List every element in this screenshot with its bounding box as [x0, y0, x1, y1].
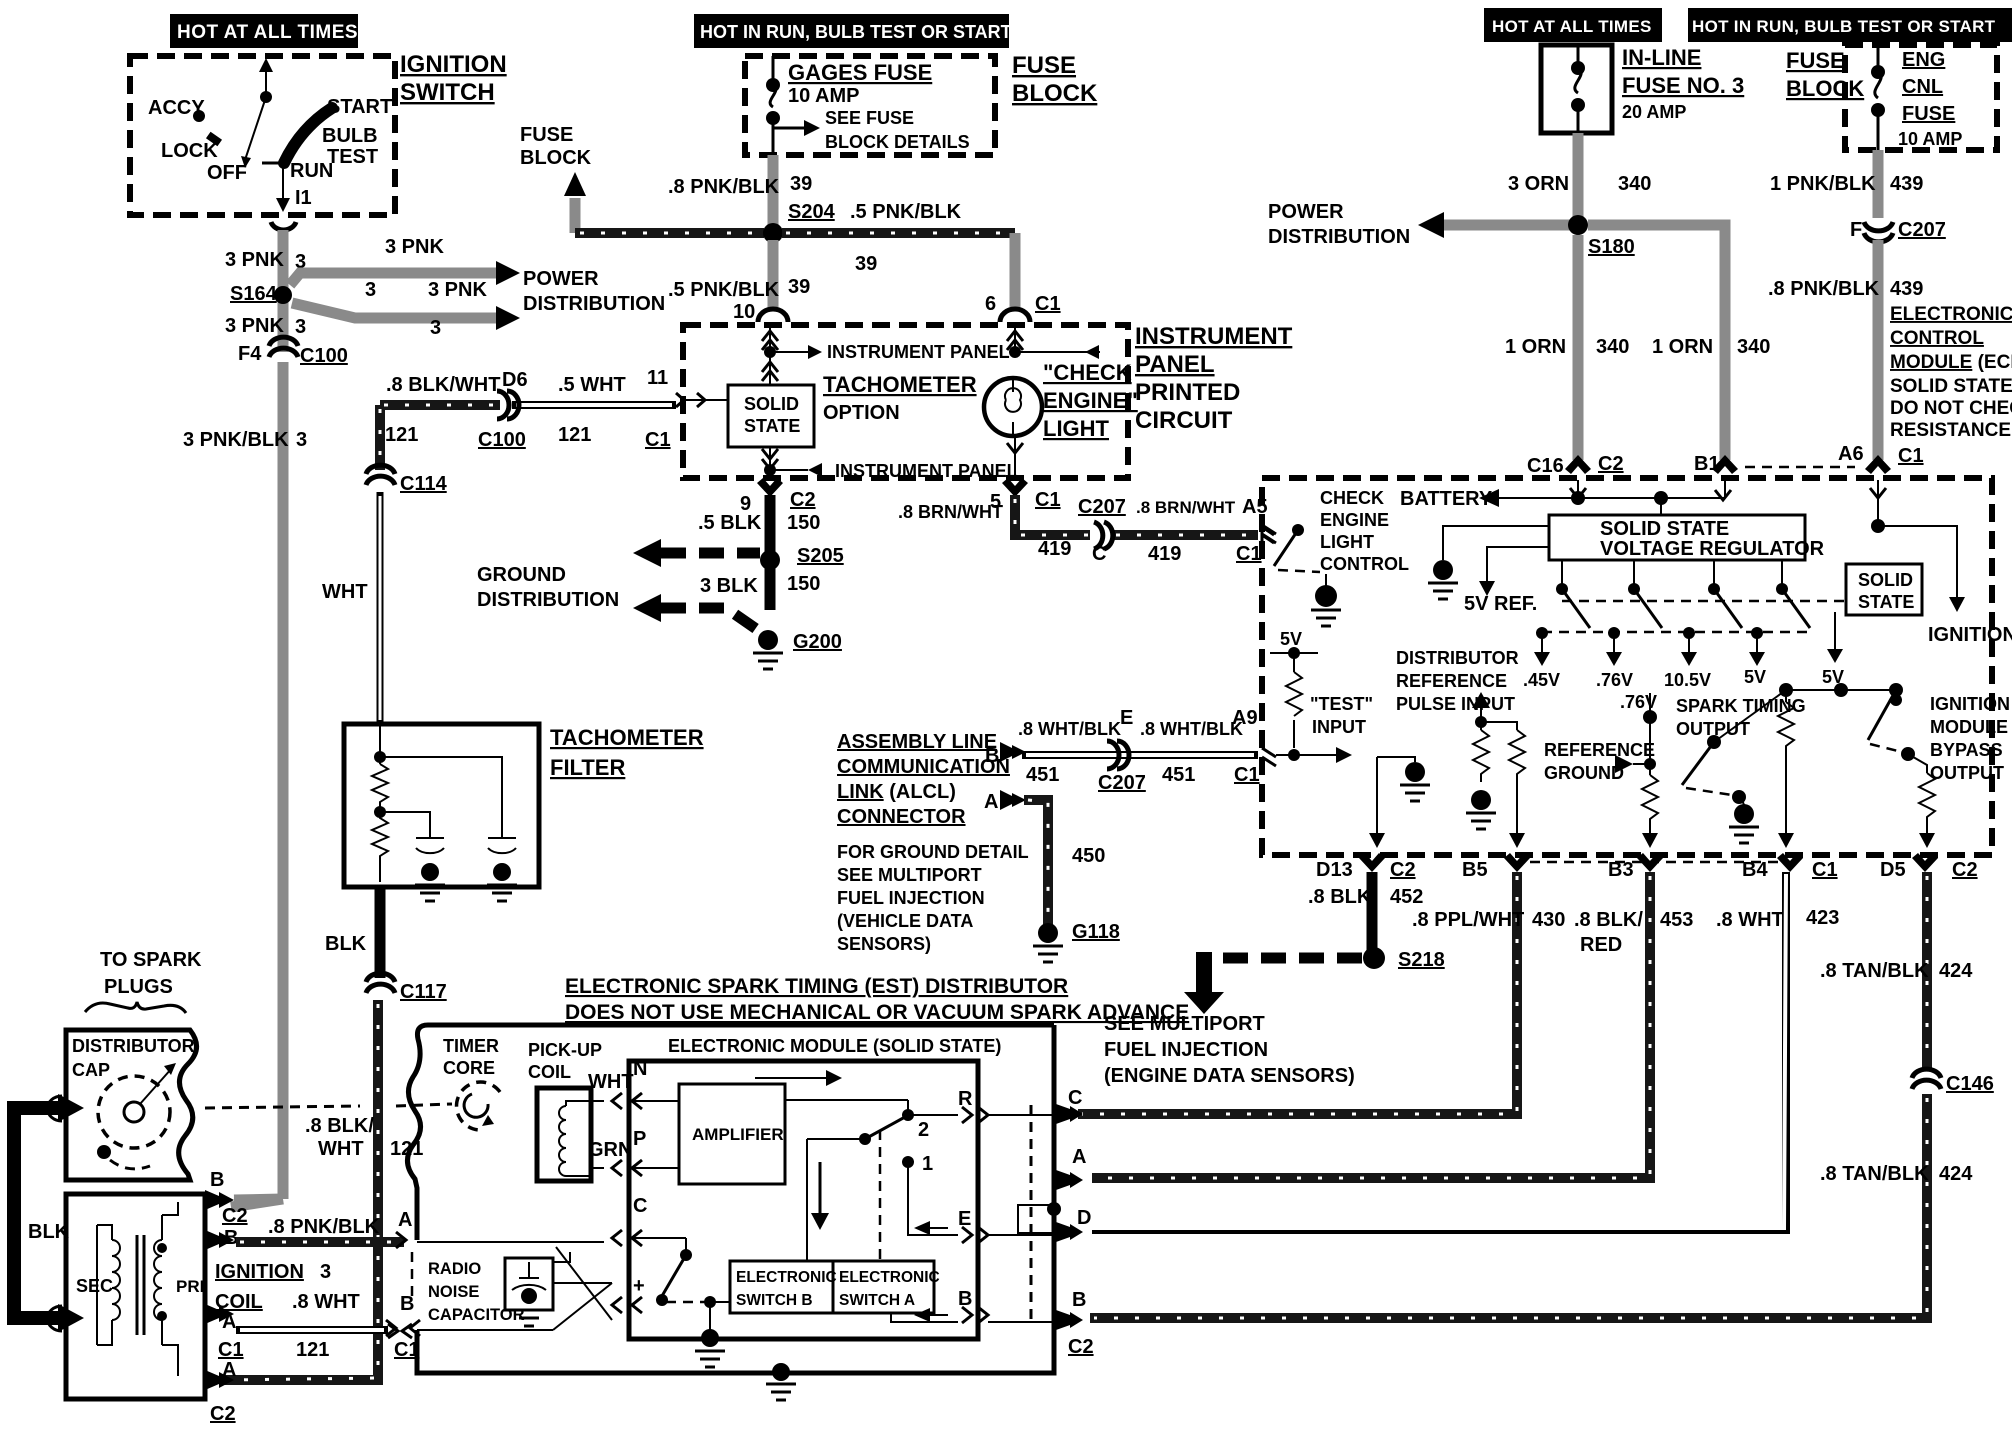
svg-text:BLOCK: BLOCK — [1012, 80, 1098, 107]
svg-text:C100: C100 — [300, 345, 348, 367]
svg-text:.5 PNK/BLK: .5 PNK/BLK — [850, 201, 962, 223]
svg-text:B: B — [400, 1293, 414, 1315]
svg-text:DO NOT CHECK: DO NOT CHECK — [1890, 398, 2012, 419]
svg-text:MODULE: MODULE — [1930, 717, 2008, 737]
svg-text:ASSEMBLY LINE: ASSEMBLY LINE — [837, 731, 997, 753]
svg-text:20 AMP: 20 AMP — [1622, 102, 1686, 122]
svg-text:.8 TAN/BLK: .8 TAN/BLK — [1820, 1163, 1929, 1185]
svg-text:BLOCK DETAILS: BLOCK DETAILS — [825, 132, 970, 152]
svg-text:C: C — [633, 1195, 647, 1217]
svg-text:RESISTANCE: RESISTANCE — [1890, 420, 2011, 441]
svg-text:WHT: WHT — [318, 1138, 364, 1160]
svg-text:419: 419 — [1038, 538, 1071, 560]
svg-text:ELECTRONIC: ELECTRONIC — [839, 1269, 940, 1286]
svg-text:.76V: .76V — [1596, 670, 1633, 690]
svg-text:D6: D6 — [502, 369, 528, 391]
svg-text:.8 PNK/BLK: .8 PNK/BLK — [1768, 278, 1880, 300]
svg-text:C16: C16 — [1527, 455, 1564, 477]
svg-text:"CHECK: "CHECK — [1043, 360, 1132, 385]
svg-text:150: 150 — [787, 573, 820, 595]
svg-text:C1: C1 — [645, 429, 671, 451]
svg-text:.8 TAN/BLK: .8 TAN/BLK — [1820, 960, 1929, 982]
svg-text:BLOCK: BLOCK — [1786, 76, 1864, 101]
svg-text:419: 419 — [1148, 543, 1181, 565]
svg-text:(ENGINE DATA SENSORS): (ENGINE DATA SENSORS) — [1104, 1065, 1355, 1087]
svg-text:IGNITION: IGNITION — [400, 51, 507, 78]
svg-text:SEE MULTIPORT: SEE MULTIPORT — [837, 865, 982, 885]
svg-text:E: E — [958, 1208, 971, 1230]
svg-text:B: B — [210, 1169, 224, 1191]
svg-text:121: 121 — [385, 424, 418, 446]
svg-text:451: 451 — [1162, 764, 1195, 786]
svg-text:REFERENCE: REFERENCE — [1544, 740, 1655, 760]
svg-text:3: 3 — [320, 1261, 331, 1283]
svg-text:LINK (ALCL): LINK (ALCL) — [837, 781, 956, 803]
svg-text:.8 BLK/: .8 BLK/ — [305, 1115, 374, 1137]
svg-text:10 AMP: 10 AMP — [1898, 129, 1962, 149]
svg-text:STATE: STATE — [744, 416, 800, 436]
svg-text:D5: D5 — [1880, 859, 1906, 881]
svg-text:424: 424 — [1939, 960, 1973, 982]
svg-text:SWITCH: SWITCH — [400, 79, 495, 106]
svg-text:CIRCUIT: CIRCUIT — [1135, 407, 1233, 434]
svg-text:PRINTED: PRINTED — [1135, 379, 1240, 406]
svg-text:A6: A6 — [1838, 443, 1864, 465]
svg-text:S205: S205 — [797, 545, 844, 567]
svg-text:.8 PNK/BLK: .8 PNK/BLK — [268, 1216, 380, 1238]
svg-text:NOISE: NOISE — [428, 1283, 479, 1301]
svg-text:PULSE INPUT: PULSE INPUT — [1396, 694, 1515, 714]
svg-text:HOT AT ALL TIMES: HOT AT ALL TIMES — [1492, 17, 1652, 36]
svg-text:AMPLIFIER: AMPLIFIER — [692, 1125, 784, 1144]
svg-text:SEE FUSE: SEE FUSE — [825, 108, 914, 128]
svg-text:C1: C1 — [394, 1339, 420, 1361]
svg-text:A: A — [398, 1209, 412, 1231]
svg-text:C1: C1 — [1812, 859, 1838, 881]
svg-text:TEST: TEST — [327, 146, 378, 168]
svg-text:R: R — [958, 1088, 973, 1110]
svg-text:FUSE: FUSE — [1012, 52, 1076, 79]
svg-text:IGNITION: IGNITION — [215, 1261, 304, 1283]
svg-text:C2: C2 — [1598, 453, 1624, 475]
svg-text:CHECK: CHECK — [1320, 488, 1384, 508]
svg-text:CONNECTOR: CONNECTOR — [837, 806, 966, 828]
svg-text:SOLID: SOLID — [1858, 570, 1913, 590]
svg-text:GROUND: GROUND — [1544, 763, 1624, 783]
svg-text:C2: C2 — [222, 1205, 248, 1227]
svg-text:BYPASS: BYPASS — [1930, 740, 2003, 760]
svg-text:D: D — [1077, 1207, 1091, 1229]
svg-text:CORE: CORE — [443, 1058, 495, 1078]
svg-text:PANEL: PANEL — [1135, 351, 1215, 378]
svg-text:B: B — [985, 745, 999, 767]
svg-text:PRI: PRI — [176, 1277, 204, 1296]
svg-text:S204: S204 — [788, 201, 836, 223]
svg-text:.76V: .76V — [1620, 692, 1657, 712]
svg-text:C2: C2 — [1068, 1336, 1094, 1358]
svg-text:3 PNK: 3 PNK — [225, 249, 284, 271]
svg-text:BLK: BLK — [28, 1221, 70, 1243]
svg-text:FOR GROUND DETAIL: FOR GROUND DETAIL — [837, 842, 1029, 862]
svg-text:1 ORN: 1 ORN — [1652, 336, 1713, 358]
svg-text:39: 39 — [788, 276, 810, 298]
svg-text:LIGHT: LIGHT — [1043, 416, 1110, 441]
svg-text:ELECTRONIC MODULE (SOLID STATE: ELECTRONIC MODULE (SOLID STATE) — [668, 1036, 1001, 1056]
svg-text:424: 424 — [1939, 1163, 1973, 1185]
svg-text:121: 121 — [558, 424, 591, 446]
svg-text:STATE: STATE — [1858, 592, 1914, 612]
svg-text:I1: I1 — [295, 187, 312, 209]
svg-text:C207: C207 — [1898, 219, 1946, 241]
svg-text:C1: C1 — [1898, 445, 1924, 467]
svg-text:C207: C207 — [1078, 496, 1126, 518]
svg-text:FUEL INJECTION: FUEL INJECTION — [837, 888, 985, 908]
svg-text:10 AMP: 10 AMP — [788, 85, 860, 107]
svg-text:39: 39 — [855, 253, 877, 275]
svg-text:.8 BRN/WHT: .8 BRN/WHT — [898, 502, 1003, 522]
svg-text:OFF: OFF — [207, 162, 247, 184]
svg-text:WHT: WHT — [322, 581, 368, 603]
svg-text:.8 BLK/WHT: .8 BLK/WHT — [386, 374, 500, 396]
svg-text:INSTRUMENT: INSTRUMENT — [1135, 323, 1293, 350]
svg-text:GROUND: GROUND — [477, 564, 566, 586]
svg-text:FUSE: FUSE — [1786, 48, 1845, 73]
svg-text:3 BLK: 3 BLK — [700, 575, 758, 597]
svg-text:.8 BLK/: .8 BLK/ — [1574, 909, 1643, 931]
svg-text:PLUGS: PLUGS — [104, 976, 173, 998]
svg-text:340: 340 — [1596, 336, 1629, 358]
svg-text:DISTRIBUTION: DISTRIBUTION — [1268, 226, 1410, 248]
svg-text:POWER: POWER — [523, 268, 599, 290]
svg-text:TIMER: TIMER — [443, 1036, 499, 1056]
svg-text:A: A — [1072, 1146, 1086, 1168]
svg-text:FUEL INJECTION: FUEL INJECTION — [1104, 1039, 1268, 1061]
svg-text:SOLID STATE:: SOLID STATE: — [1890, 376, 2012, 397]
svg-text:SEC: SEC — [76, 1276, 113, 1296]
svg-text:.5 WHT: .5 WHT — [558, 374, 626, 396]
svg-text:.8 WHT/BLK: .8 WHT/BLK — [1018, 719, 1121, 739]
svg-text:INSTRUMENT PANEL: INSTRUMENT PANEL — [827, 342, 1010, 362]
svg-text:COMMUNICATION: COMMUNICATION — [837, 756, 1010, 778]
svg-text:CNL: CNL — [1902, 76, 1943, 98]
svg-text:3 PNK: 3 PNK — [428, 279, 487, 301]
svg-text:"TEST": "TEST" — [1310, 694, 1373, 714]
svg-text:RADIO: RADIO — [428, 1260, 481, 1278]
svg-text:ACCY: ACCY — [148, 97, 205, 119]
svg-text:.5 PNK/BLK: .5 PNK/BLK — [668, 279, 780, 301]
svg-text:SOLID STATE: SOLID STATE — [1600, 518, 1729, 540]
svg-text:SENSORS): SENSORS) — [837, 934, 931, 954]
svg-text:RED: RED — [1580, 934, 1622, 956]
svg-text:5V: 5V — [1744, 667, 1766, 687]
svg-text:SWITCH A: SWITCH A — [839, 1292, 915, 1309]
svg-text:ELECTRONIC: ELECTRONIC — [1890, 304, 2012, 325]
svg-text:LIGHT: LIGHT — [1320, 532, 1374, 552]
svg-text:DISTRIBUTION: DISTRIBUTION — [477, 589, 619, 611]
svg-text:C1: C1 — [1236, 543, 1262, 565]
svg-text:3 ORN: 3 ORN — [1508, 173, 1569, 195]
svg-text:C1: C1 — [1035, 489, 1061, 511]
svg-text:DISTRIBUTOR: DISTRIBUTOR — [1396, 648, 1519, 668]
svg-text:A: A — [984, 791, 998, 813]
svg-text:S164: S164 — [230, 283, 278, 305]
svg-text:A: A — [222, 1359, 236, 1381]
svg-text:452: 452 — [1390, 886, 1423, 908]
svg-text:451: 451 — [1026, 764, 1059, 786]
svg-text:HOT IN RUN, BULB TEST OR START: HOT IN RUN, BULB TEST OR START — [700, 22, 1012, 42]
svg-text:REFERENCE: REFERENCE — [1396, 671, 1507, 691]
svg-text:450: 450 — [1072, 845, 1105, 867]
svg-text:10: 10 — [733, 301, 755, 323]
svg-text:A: A — [222, 1311, 236, 1333]
svg-text:5V REF.: 5V REF. — [1464, 593, 1537, 615]
svg-text:150: 150 — [787, 512, 820, 534]
svg-text:39: 39 — [790, 173, 812, 195]
svg-text:C1: C1 — [218, 1339, 244, 1361]
svg-text:+: + — [633, 1275, 645, 1297]
svg-text:C100: C100 — [478, 429, 526, 451]
svg-text:ENGINE": ENGINE" — [1043, 388, 1138, 413]
svg-text:B3: B3 — [1608, 859, 1634, 881]
svg-text:FUSE: FUSE — [1902, 103, 1955, 125]
svg-text:3: 3 — [296, 429, 307, 451]
svg-text:BULB: BULB — [322, 125, 378, 147]
svg-text:TACHOMETER: TACHOMETER — [550, 725, 704, 750]
svg-text:439: 439 — [1890, 278, 1923, 300]
svg-text:TACHOMETER: TACHOMETER — [823, 372, 977, 397]
svg-text:INPUT: INPUT — [1312, 717, 1366, 737]
svg-text:C146: C146 — [1946, 1073, 1994, 1095]
svg-text:S180: S180 — [1588, 236, 1635, 258]
svg-text:.8 PPL/WHT: .8 PPL/WHT — [1412, 909, 1524, 931]
svg-text:.8 WHT/BLK: .8 WHT/BLK — [1140, 719, 1243, 739]
svg-text:439: 439 — [1890, 173, 1923, 195]
svg-text:IGNITION: IGNITION — [1930, 694, 2010, 714]
svg-text:HOT IN RUN, BULB TEST OR START: HOT IN RUN, BULB TEST OR START — [1692, 17, 1996, 36]
svg-text:3 PNK: 3 PNK — [385, 236, 444, 258]
svg-text:340: 340 — [1618, 173, 1651, 195]
svg-text:DISTRIBUTION: DISTRIBUTION — [523, 293, 665, 315]
svg-text:453: 453 — [1660, 909, 1693, 931]
svg-text:PICK-UP: PICK-UP — [528, 1040, 602, 1060]
svg-text:CONTROL: CONTROL — [1890, 328, 1984, 349]
svg-text:ENGINE: ENGINE — [1320, 510, 1389, 530]
svg-text:423: 423 — [1806, 907, 1839, 929]
svg-text:F4: F4 — [238, 343, 262, 365]
svg-text:SOLID: SOLID — [744, 394, 799, 414]
svg-text:.8 BRN/WHT: .8 BRN/WHT — [1136, 498, 1236, 517]
svg-text:ELECTRONIC: ELECTRONIC — [736, 1269, 837, 1286]
svg-text:.8 BLK: .8 BLK — [1308, 886, 1372, 908]
svg-text:E: E — [1120, 707, 1133, 729]
svg-text:3: 3 — [430, 317, 441, 339]
svg-text:B4: B4 — [1742, 859, 1768, 881]
svg-text:B5: B5 — [1462, 859, 1488, 881]
svg-text:CONTROL: CONTROL — [1320, 554, 1409, 574]
svg-text:IN-LINE: IN-LINE — [1622, 45, 1701, 70]
svg-text:MODULE (ECM): MODULE (ECM) — [1890, 352, 2012, 373]
svg-text:.5 BLK: .5 BLK — [698, 512, 762, 534]
svg-text:430: 430 — [1532, 909, 1565, 931]
svg-text:121: 121 — [296, 1339, 329, 1361]
svg-text:C207: C207 — [1098, 772, 1146, 794]
svg-text:GRN: GRN — [588, 1139, 632, 1161]
svg-text:BLOCK: BLOCK — [520, 147, 592, 169]
svg-text:F: F — [1850, 219, 1862, 241]
svg-text:FUSE NO. 3: FUSE NO. 3 — [1622, 73, 1744, 98]
svg-text:S218: S218 — [1398, 949, 1445, 971]
svg-text:.8 WHT: .8 WHT — [1716, 909, 1784, 931]
svg-text:3: 3 — [365, 279, 376, 301]
svg-text:CAP: CAP — [72, 1060, 110, 1080]
svg-text:B: B — [1072, 1289, 1086, 1311]
svg-text:INSTRUMENT PANEL: INSTRUMENT PANEL — [835, 461, 1018, 481]
svg-text:C2: C2 — [1952, 859, 1978, 881]
svg-text:5V: 5V — [1280, 629, 1302, 649]
svg-text:P: P — [633, 1128, 646, 1150]
svg-text:BATTERY: BATTERY — [1400, 488, 1493, 510]
svg-text:C: C — [1092, 543, 1106, 565]
svg-text:1 PNK/BLK: 1 PNK/BLK — [1770, 173, 1876, 195]
svg-text:C: C — [1068, 1087, 1082, 1109]
svg-text:.8 PNK/BLK: .8 PNK/BLK — [668, 176, 780, 198]
svg-text:HOT AT ALL TIMES: HOT AT ALL TIMES — [177, 22, 358, 43]
svg-text:DISTRIBUTOR: DISTRIBUTOR — [72, 1036, 195, 1056]
svg-text:C1: C1 — [1035, 293, 1061, 315]
svg-text:3 PNK: 3 PNK — [225, 315, 284, 337]
svg-text:.45V: .45V — [1523, 670, 1560, 690]
svg-text:FILTER: FILTER — [550, 755, 625, 780]
svg-text:COIL: COIL — [528, 1062, 571, 1082]
svg-text:LOCK: LOCK — [161, 140, 218, 162]
svg-text:6: 6 — [985, 293, 996, 315]
svg-text:340: 340 — [1737, 336, 1770, 358]
svg-text:FUSE: FUSE — [520, 124, 573, 146]
svg-text:G118: G118 — [1072, 921, 1120, 943]
svg-text:.8 WHT: .8 WHT — [292, 1291, 360, 1313]
svg-text:DOES NOT USE MECHANICAL OR VAC: DOES NOT USE MECHANICAL OR VACUUM SPARK … — [565, 1001, 1189, 1024]
svg-text:G200: G200 — [793, 631, 842, 653]
svg-text:C114: C114 — [400, 473, 448, 495]
svg-text:B: B — [958, 1288, 972, 1310]
svg-text:A9: A9 — [1232, 707, 1258, 729]
svg-text:1 ORN: 1 ORN — [1505, 336, 1566, 358]
svg-text:1: 1 — [922, 1153, 933, 1175]
svg-text:11: 11 — [647, 367, 668, 389]
svg-text:C117: C117 — [400, 981, 447, 1003]
svg-text:COIL: COIL — [215, 1291, 263, 1313]
svg-text:C1: C1 — [1234, 764, 1260, 786]
svg-text:SWITCH B: SWITCH B — [736, 1292, 813, 1309]
svg-text:C2: C2 — [210, 1403, 236, 1425]
svg-text:POWER: POWER — [1268, 201, 1344, 223]
svg-text:GAGES FUSE: GAGES FUSE — [788, 60, 932, 85]
svg-text:3: 3 — [295, 316, 306, 338]
svg-text:2: 2 — [918, 1119, 929, 1141]
svg-text:ELECTRONIC SPARK TIMING (EST): ELECTRONIC SPARK TIMING (EST) DISTRIBUTO… — [565, 975, 1068, 998]
svg-text:10.5V: 10.5V — [1664, 670, 1711, 690]
svg-text:C2: C2 — [1390, 859, 1416, 881]
svg-text:3 PNK/BLK: 3 PNK/BLK — [183, 429, 289, 451]
svg-text:IGNITION: IGNITION — [1928, 624, 2012, 646]
svg-text:OUTPUT: OUTPUT — [1930, 763, 2004, 783]
svg-text:C2: C2 — [790, 489, 816, 511]
svg-text:BLK: BLK — [325, 933, 367, 955]
svg-text:D13: D13 — [1316, 859, 1353, 881]
svg-text:VOLTAGE REGULATOR: VOLTAGE REGULATOR — [1600, 538, 1825, 560]
svg-text:(VEHICLE DATA: (VEHICLE DATA — [837, 911, 973, 931]
svg-text:OPTION: OPTION — [823, 402, 900, 424]
svg-text:N: N — [633, 1058, 647, 1080]
svg-text:TO SPARK: TO SPARK — [100, 949, 202, 971]
svg-text:ENG: ENG — [1902, 49, 1945, 71]
